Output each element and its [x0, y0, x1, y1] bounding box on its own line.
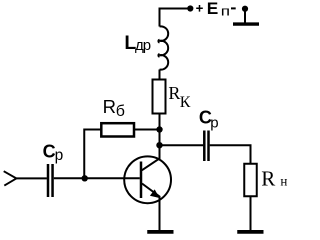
svg-text:К: К — [180, 94, 191, 111]
svg-text:п: п — [221, 4, 230, 19]
transistor VT1 circle — [124, 156, 171, 203]
wire Rб left lead down to base node — [84, 130, 101, 179]
node: Rб-rail junction — [156, 126, 162, 132]
node: supply left dot — [187, 5, 193, 11]
wire collector rail — [159, 114, 161, 159]
capacitor Cр input — [48, 164, 53, 197]
svg-text:н: н — [280, 175, 287, 190]
plus sign — [196, 5, 203, 12]
emitter arrowhead — [150, 189, 160, 198]
supply wire stub to ground — [244, 9, 246, 23]
input terminal arrow — [4, 171, 17, 185]
svg-text:др: др — [135, 37, 151, 54]
svg-text:р: р — [55, 147, 64, 164]
transistor VT1 collector lead — [142, 145, 160, 170]
ground under emitter — [147, 230, 173, 234]
svg-text:р: р — [210, 115, 218, 132]
resistor Rб — [101, 123, 134, 136]
resistor Rн — [244, 164, 257, 197]
svg-text:R: R — [168, 83, 180, 103]
node: collector-output junction — [156, 142, 162, 148]
wire Cp to base — [54, 177, 140, 179]
wire from inductor top to supply node — [160, 9, 191, 27]
wire Rб right lead to rail — [134, 129, 160, 131]
inductor Lдр — [160, 26, 169, 69]
ground under Rн — [237, 230, 263, 234]
transistor VT1 emitter lead — [142, 184, 160, 231]
wire Rн to ground — [250, 196, 252, 230]
svg-text:R: R — [103, 96, 116, 117]
capacitor Cр output — [204, 131, 208, 162]
wire input to Cp — [16, 177, 47, 179]
svg-text:R: R — [261, 166, 275, 190]
svg-text:E: E — [207, 0, 219, 18]
node: supply right dot — [242, 6, 248, 12]
ground at supply — [233, 22, 259, 25]
inductor cusp loops — [158, 40, 159, 57]
minus sign — [231, 7, 236, 9]
wire collector to output Cp — [160, 144, 204, 146]
wire coil bottom to RK — [159, 70, 161, 80]
wire Cp to Rн — [210, 145, 251, 164]
svg-text:б: б — [116, 103, 125, 120]
transistor VT1 base bar — [140, 162, 143, 199]
resistor RK — [153, 80, 166, 114]
node: base junction — [82, 175, 88, 181]
